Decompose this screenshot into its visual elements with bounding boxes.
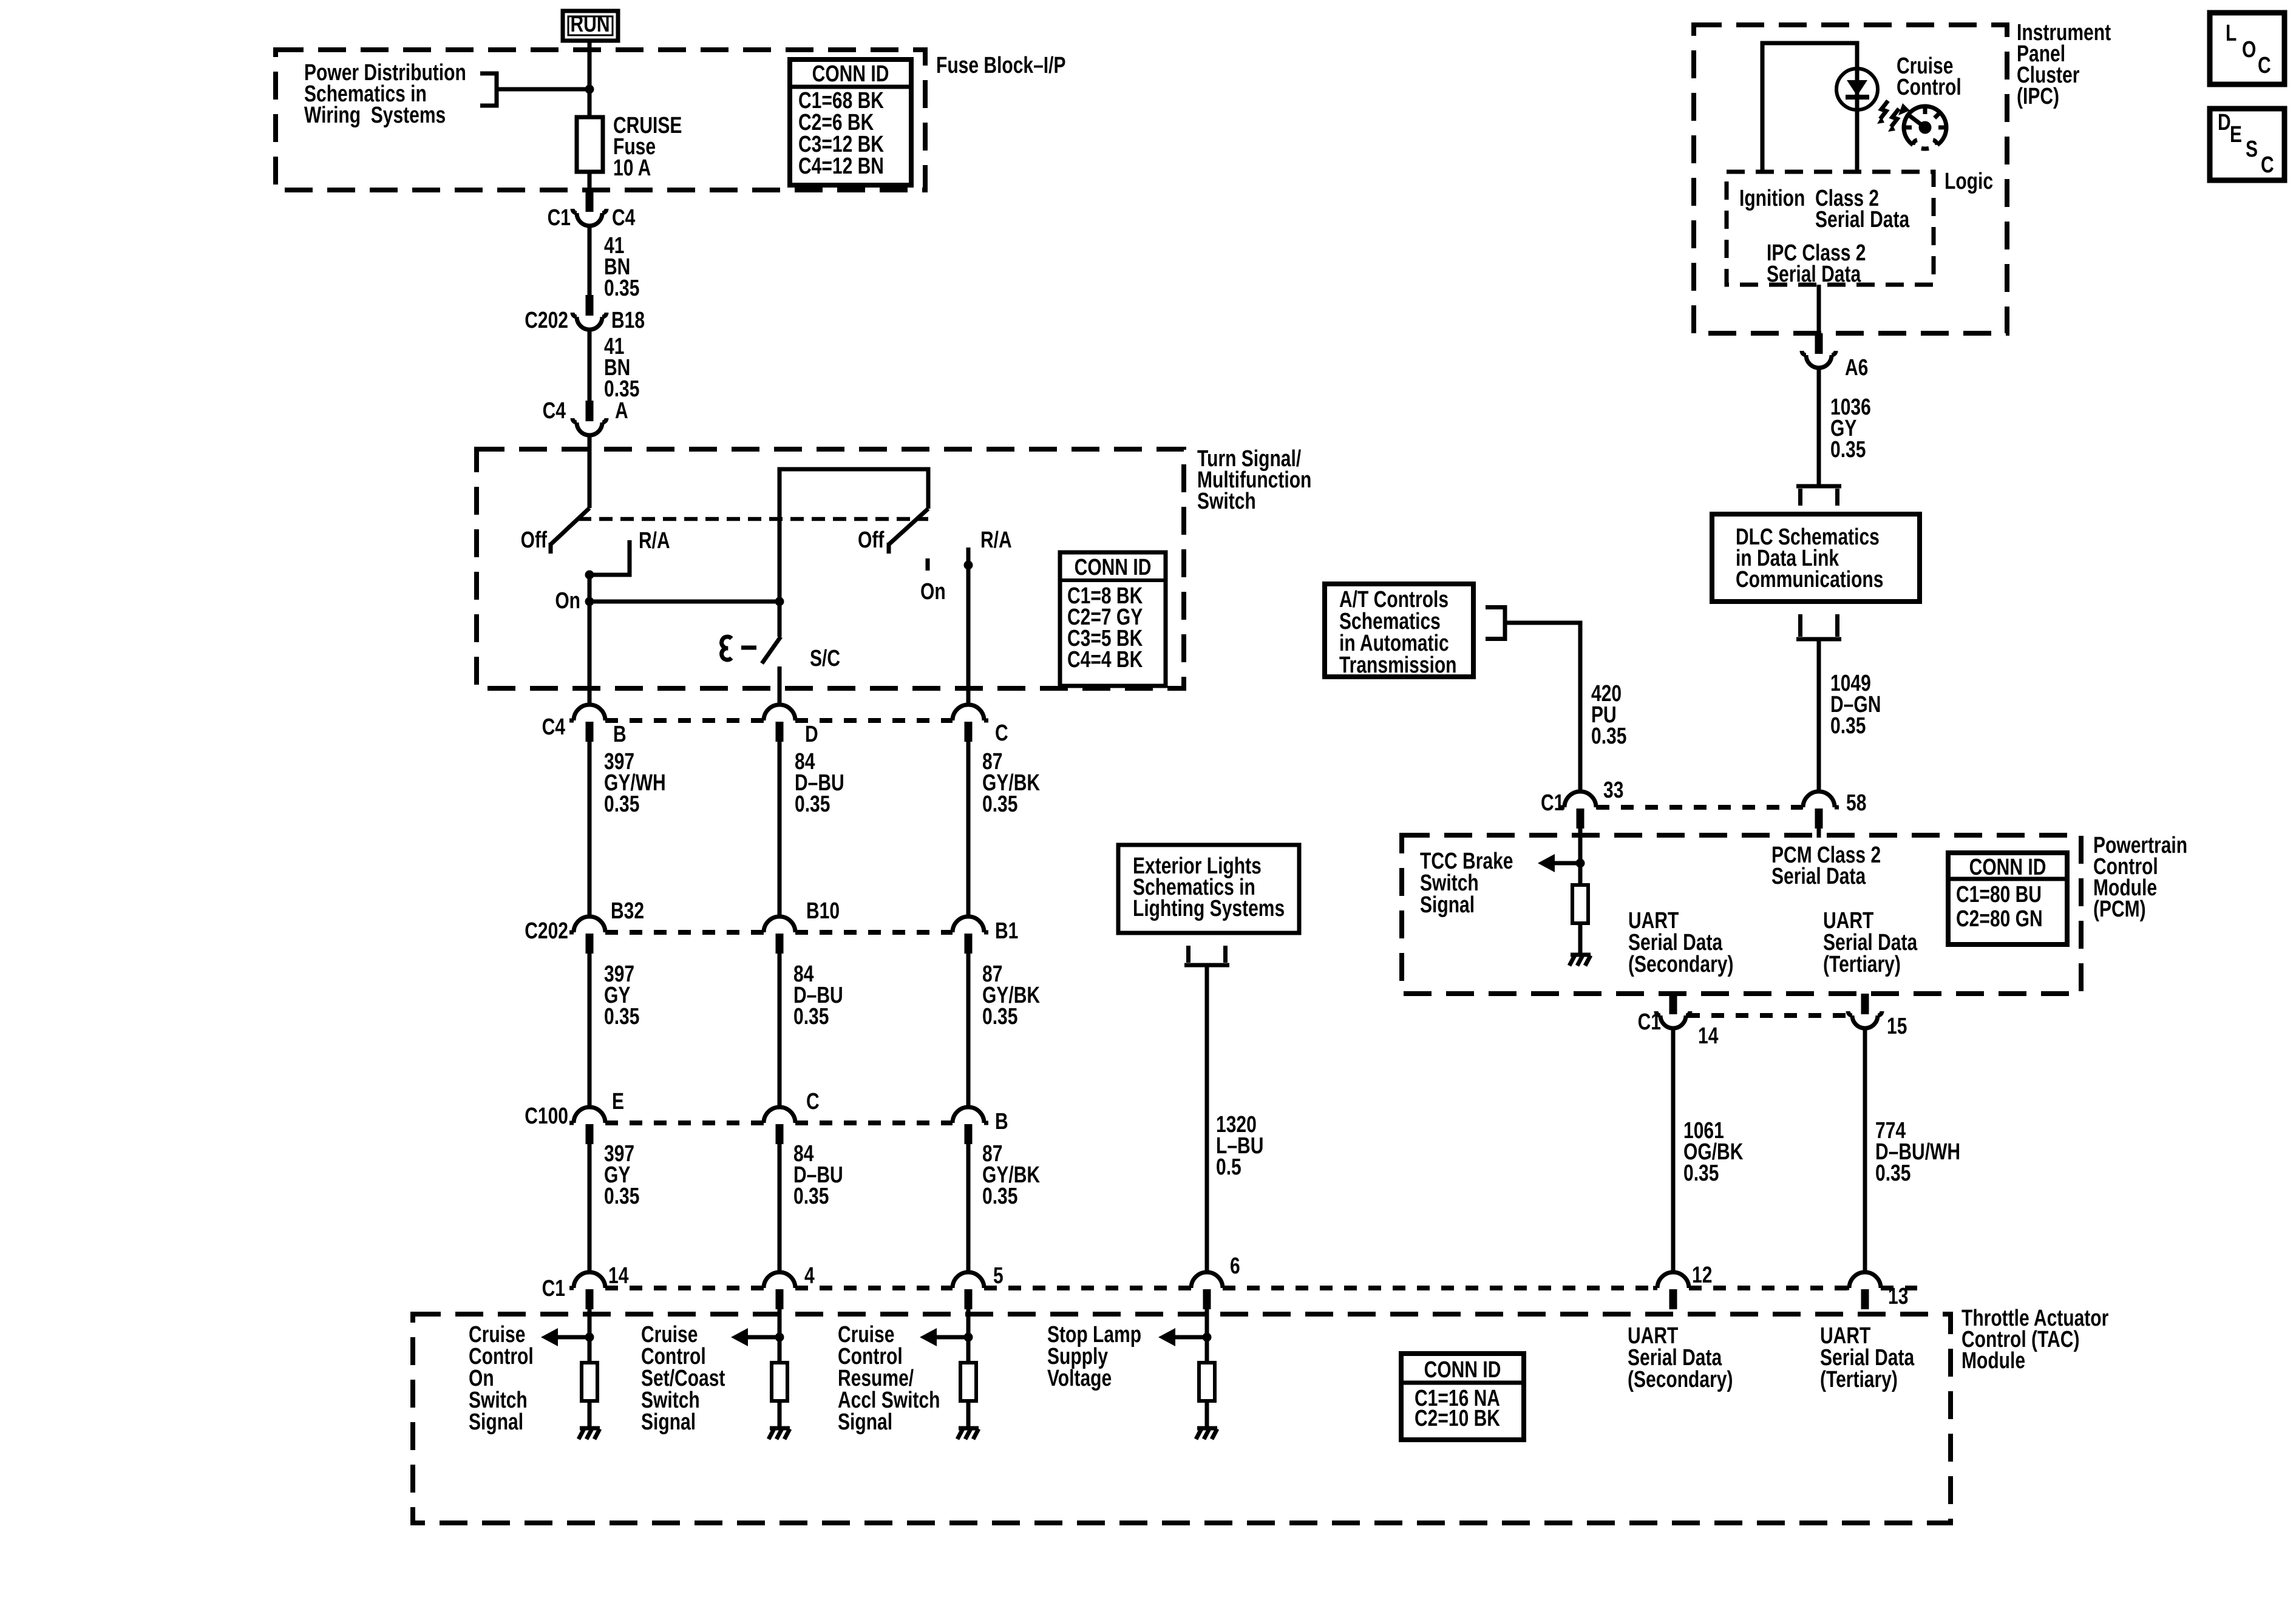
contact R/A (left)	[589, 540, 630, 575]
node UART serial data secondary (PCM)	[1628, 908, 1733, 977]
wire to ground (cruise resume/accel switch signal)	[966, 1401, 971, 1427]
ground (stop lamp supply voltage)	[1196, 1428, 1217, 1439]
wire On to S/C switch	[589, 600, 779, 604]
junction cruise resume/accel switch signal	[964, 1333, 973, 1342]
svg-text:Communications: Communications	[1736, 567, 1883, 592]
wire input cruise resume/accel switch signal	[966, 1309, 971, 1363]
wire IPC output	[1817, 285, 1821, 333]
ground (cruise resume/accel switch signal)	[957, 1428, 979, 1439]
svg-text:0.35: 0.35	[1591, 724, 1626, 749]
svg-text:C202: C202	[525, 918, 568, 944]
wire switch common down	[588, 575, 592, 705]
arrow stop lamp supply voltage	[1175, 1335, 1207, 1340]
wire to ground (cruise set/coast switch signal)	[778, 1401, 782, 1427]
svg-text:CONN ID: CONN ID	[812, 61, 889, 87]
connector row C202	[569, 917, 610, 954]
svg-text:0.35: 0.35	[1683, 1161, 1719, 1186]
svg-text:Lighting Systems: Lighting Systems	[1133, 896, 1285, 921]
svg-text:6: 6	[1230, 1253, 1240, 1279]
ground (cruise set/coast switch signal)	[769, 1428, 790, 1439]
wire 397 GY/WH	[588, 742, 592, 917]
gauge icon speedometer	[1898, 103, 1946, 149]
svg-text:C1: C1	[542, 1276, 565, 1301]
resistor pull (cruise resume/accel switch signal)	[960, 1363, 976, 1401]
node PCM Class 2 Serial Data	[1771, 842, 1881, 889]
resistor pull (cruise set/coast switch signal)	[772, 1363, 787, 1401]
wire to ground (stop lamp supply voltage)	[1205, 1401, 1209, 1427]
bracket below DLC box	[1796, 614, 1841, 639]
svg-text:B: B	[995, 1109, 1008, 1134]
svg-text:0.35: 0.35	[982, 1184, 1017, 1209]
svg-text:C: C	[2261, 152, 2274, 178]
svg-text:C4: C4	[612, 205, 635, 231]
LOC reference box	[2210, 13, 2284, 84]
node stop lamp supply voltage	[1047, 1322, 1141, 1391]
svg-text:Voltage: Voltage	[1047, 1366, 1112, 1391]
svg-text:(Secondary): (Secondary)	[1628, 1367, 1733, 1392]
svg-text:C: C	[995, 720, 1008, 746]
svg-text:Signal: Signal	[469, 1409, 523, 1435]
svg-text:C1: C1	[548, 205, 571, 231]
node cruise resume/accel switch signal	[838, 1322, 940, 1435]
connector row C4 (switch)	[569, 705, 610, 742]
LED emission arrows	[1877, 101, 1899, 132]
connector row C1 (TAC module)	[569, 1272, 610, 1309]
bracket above DLC box	[1796, 486, 1841, 506]
svg-text:0.35: 0.35	[795, 792, 830, 817]
svg-text:Logic: Logic	[1944, 169, 1993, 194]
svg-text:Ignition: Ignition	[1739, 186, 1805, 211]
connector C202/B18	[572, 295, 606, 330]
node UART serial data tertiary (TAC)	[1820, 1323, 1915, 1392]
svg-text:S: S	[2246, 137, 2258, 162]
node UART serial data tertiary (PCM)	[1823, 908, 1918, 977]
svg-text:C: C	[806, 1089, 820, 1114]
switch blade R/A (right)	[889, 509, 928, 544]
svg-text:0.35: 0.35	[604, 1004, 639, 1029]
svg-text:0.35: 0.35	[793, 1004, 829, 1029]
svg-text:Module: Module	[1961, 1348, 2025, 1374]
dashed connector line 14-15	[1687, 1013, 1851, 1018]
svg-text:(Tertiary): (Tertiary)	[1823, 952, 1901, 977]
svg-text:13: 13	[1888, 1284, 1908, 1309]
switch S/C momentary	[722, 637, 732, 660]
svg-text:14: 14	[1698, 1023, 1718, 1049]
wire S/C output	[778, 666, 782, 705]
svg-text:Control: Control	[1897, 75, 1961, 100]
svg-text:R/A: R/A	[980, 527, 1012, 553]
svg-text:10 A: 10 A	[613, 155, 651, 181]
svg-text:Off: Off	[858, 527, 885, 553]
svg-text:5: 5	[993, 1263, 1004, 1289]
wire 397 GY lower	[588, 1144, 592, 1272]
svg-text:D: D	[805, 722, 818, 747]
wire 397 GY	[588, 954, 592, 1107]
svg-text:Off: Off	[521, 527, 548, 553]
svg-text:O: O	[2242, 37, 2256, 63]
svg-text:A: A	[615, 398, 628, 424]
svg-text:Serial Data: Serial Data	[1815, 207, 1910, 232]
wire 41 BN	[588, 226, 592, 295]
connector row C100	[569, 1107, 610, 1144]
svg-text:0.5: 0.5	[1216, 1154, 1241, 1180]
svg-text:C100: C100	[525, 1103, 568, 1129]
contact Off (right)	[887, 543, 891, 554]
svg-text:C2=80 GN: C2=80 GN	[1956, 906, 2043, 932]
LED cruise indicator	[1836, 69, 1878, 110]
resistor (TCC pull)	[1572, 885, 1588, 923]
svg-text:C4=12 BN: C4=12 BN	[798, 154, 884, 179]
svg-text:(Secondary): (Secondary)	[1628, 952, 1733, 977]
ground (cruise on switch signal)	[579, 1428, 600, 1439]
svg-text:B: B	[613, 722, 627, 747]
svg-text:0.35: 0.35	[793, 1184, 829, 1209]
node Exterior Lights reference box	[1118, 845, 1299, 933]
node A/T controls reference box	[1325, 584, 1473, 678]
bracket right of A/T box	[1486, 605, 1505, 641]
wire 84 D-BU	[778, 954, 782, 1107]
wire 58 into PCM	[1817, 829, 1821, 838]
svg-text:C202: C202	[525, 308, 568, 333]
svg-text:(PCM): (PCM)	[2093, 897, 2146, 922]
svg-text:B1: B1	[995, 918, 1018, 944]
svg-text:RUN: RUN	[570, 12, 610, 37]
junction R/A branch	[585, 571, 594, 580]
instrument panel cluster dashed box	[1694, 25, 2007, 333]
junction at fuse feed	[585, 85, 594, 94]
label IPC	[2017, 20, 2111, 109]
connector C1/14 (PCM out)	[1656, 994, 1690, 1028]
label Cruise Control	[1897, 53, 1961, 100]
svg-text:CONN ID: CONN ID	[1969, 855, 2046, 880]
arrow cruise on switch signal	[558, 1335, 589, 1340]
contact Off (left)	[549, 543, 553, 554]
wire input cruise on switch signal	[588, 1309, 592, 1363]
node UART serial data secondary (TAC)	[1628, 1323, 1733, 1392]
wire TCC to ground	[1578, 923, 1583, 954]
junction stop lamp supply voltage	[1203, 1333, 1212, 1342]
svg-text:E: E	[612, 1089, 624, 1114]
svg-text:A6: A6	[1845, 355, 1868, 381]
svg-text:(IPC): (IPC)	[2017, 84, 2059, 109]
svg-text:C1=80 BU: C1=80 BU	[1956, 882, 2042, 907]
ground (PCM)	[1569, 955, 1591, 966]
bracket below exterior lights box	[1184, 946, 1229, 965]
svg-text:C1: C1	[1541, 790, 1564, 816]
wire 420 PU	[1505, 623, 1580, 792]
node Class 2 Serial Data	[1815, 186, 1910, 232]
connector 15 (PCM out)	[1848, 994, 1882, 1028]
svg-text:C4: C4	[543, 398, 566, 424]
svg-text:58: 58	[1846, 790, 1866, 816]
node cruise on switch signal	[469, 1322, 534, 1435]
svg-text:C: C	[2258, 53, 2271, 78]
svg-text:0.35: 0.35	[604, 792, 639, 817]
CONN ID table (fuse block)	[790, 59, 911, 185]
svg-text:Transmission: Transmission	[1339, 653, 1456, 678]
wire TCC brake input	[1578, 829, 1583, 885]
arrow TCC brake	[1555, 861, 1580, 866]
svg-text:D: D	[2218, 110, 2231, 135]
svg-text:(Tertiary): (Tertiary)	[1820, 1367, 1898, 1392]
svg-text:0.35: 0.35	[982, 1004, 1017, 1029]
svg-text:S/C: S/C	[810, 646, 840, 671]
svg-text:Wiring Systems: Wiring Systems	[304, 103, 446, 128]
CONN ID table (TAC)	[1401, 1354, 1524, 1440]
junction cruise on switch signal	[585, 1333, 594, 1342]
mechanical linkage dashed line	[578, 517, 928, 521]
wire RUN to fuse	[588, 41, 592, 117]
fuse block I/P dashed box	[276, 50, 925, 190]
label TAC module	[1961, 1306, 2108, 1374]
svg-text:0.35: 0.35	[1875, 1161, 1911, 1186]
svg-text:Serial Data: Serial Data	[1767, 262, 1861, 287]
wire 1061 OG/BK	[1671, 1028, 1676, 1272]
wire S/C riser and loop to R/A blade	[779, 469, 928, 637]
wire power feed to junction	[497, 87, 589, 92]
svg-text:CONN ID: CONN ID	[1424, 1357, 1501, 1383]
wire to ground (cruise on switch signal)	[588, 1401, 592, 1427]
wire 87 GY/BK	[966, 742, 971, 917]
label turn signal switch	[1197, 446, 1311, 514]
node Power Distribution reference	[304, 60, 466, 128]
connector A6 (IPC)	[1802, 333, 1836, 368]
svg-text:0.35: 0.35	[604, 276, 639, 301]
wire 1320 L-BU	[1205, 965, 1209, 1272]
svg-text:33: 33	[1603, 778, 1623, 803]
svg-text:4: 4	[804, 1263, 815, 1289]
wire 84 D-BU	[778, 742, 782, 917]
svg-text:12: 12	[1692, 1263, 1712, 1288]
svg-text:B32: B32	[611, 898, 644, 924]
throttle actuator control dashed box	[413, 1314, 1951, 1523]
wire 1049 D-GN	[1817, 639, 1821, 792]
node RUN (ignition feed)	[563, 11, 618, 41]
arrow cruise resume/accel switch signal	[937, 1335, 968, 1340]
svg-text:C4: C4	[542, 714, 565, 740]
junction cruise set/coast switch signal	[775, 1333, 784, 1342]
wire input stop lamp supply voltage	[1205, 1309, 1209, 1363]
powertrain control module dashed box	[1402, 835, 2081, 994]
node TCC brake switch signal	[1420, 849, 1513, 918]
wire 87 GY/BK	[966, 954, 971, 1107]
svg-text:Signal: Signal	[641, 1409, 696, 1435]
connector C1/C4 fuse block	[572, 191, 606, 226]
resistor pull (stop lamp supply voltage)	[1199, 1363, 1215, 1401]
CONN ID table (switch)	[1060, 552, 1166, 686]
wire R/A output	[966, 547, 971, 705]
svg-text:B10: B10	[806, 898, 840, 924]
switch blade cruise on/off	[551, 508, 589, 544]
svg-text:B18: B18	[611, 308, 645, 333]
connector C1/33 (PCM)	[1560, 792, 1600, 829]
wire into multifunction switch	[588, 435, 592, 508]
bracket for power distribution ref	[480, 73, 497, 106]
wire 774 D-BU/WH	[1863, 1028, 1867, 1272]
node DLC schematics reference box	[1712, 514, 1920, 602]
svg-text:0.35: 0.35	[1830, 437, 1866, 463]
resistor pull (cruise on switch signal)	[582, 1363, 597, 1401]
wire 87 GY/BK lower	[966, 1144, 971, 1272]
connector C4/A	[572, 401, 606, 435]
svg-text:On: On	[555, 588, 580, 614]
svg-text:Signal: Signal	[1420, 892, 1475, 918]
wire fuse to C1 connector	[588, 172, 592, 191]
wire input cruise set/coast switch signal	[778, 1309, 782, 1363]
dashed connector line 33-58	[1597, 805, 1802, 810]
svg-text:Switch: Switch	[1197, 489, 1256, 514]
svg-text:L: L	[2226, 21, 2237, 46]
connector 58 (PCM)	[1799, 792, 1839, 829]
svg-text:C4=4 BK: C4=4 BK	[1067, 647, 1143, 673]
svg-text:C1: C1	[1638, 1009, 1661, 1035]
svg-text:15: 15	[1887, 1014, 1907, 1039]
wire IPC indicator loop	[1762, 43, 1857, 172]
wire 1036 GY	[1817, 368, 1821, 486]
turn signal/multifunction switch dashed box	[477, 449, 1184, 688]
svg-text:0.35: 0.35	[982, 792, 1017, 817]
junction TCC	[1576, 859, 1585, 868]
svg-text:0.35: 0.35	[604, 1184, 639, 1209]
DESC reference box	[2210, 109, 2284, 180]
svg-text:R/A: R/A	[639, 528, 670, 554]
svg-text:On: On	[920, 579, 946, 605]
svg-text:0.35: 0.35	[1830, 713, 1866, 739]
label PCM	[2093, 833, 2187, 922]
svg-text:Fuse Block–I/P: Fuse Block–I/P	[936, 53, 1066, 78]
node cruise set/coast switch signal	[641, 1322, 725, 1435]
node IPC Class 2 Serial Data	[1767, 240, 1866, 287]
svg-text:CONN ID: CONN ID	[1075, 555, 1152, 580]
wire 41 BN lower	[588, 330, 592, 401]
svg-text:E: E	[2230, 122, 2242, 147]
svg-text:C2=10 BK: C2=10 BK	[1415, 1406, 1500, 1431]
logic dashed box	[1727, 172, 1934, 285]
svg-text:Signal: Signal	[838, 1409, 892, 1435]
svg-text:14: 14	[608, 1263, 628, 1289]
wire 84 D-BU lower	[778, 1144, 782, 1272]
CONN ID table (PCM)	[1948, 853, 2067, 944]
fuse F CRUISE 10A	[577, 117, 603, 172]
arrow cruise set/coast switch signal	[748, 1335, 779, 1340]
contact On (right, open)	[926, 558, 930, 571]
svg-text:Serial Data: Serial Data	[1771, 864, 1866, 889]
